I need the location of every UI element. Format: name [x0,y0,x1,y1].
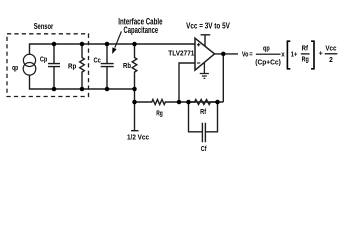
svg-text:x: x [281,50,284,59]
svg-text:=: = [249,49,252,58]
node dot Rb top [132,42,137,47]
capacitor Cc [101,44,114,89]
wire feedback vertical [222,54,224,102]
label arrow to Cc [115,31,122,47]
node dot Cf left [186,100,191,105]
bracket left [287,41,290,69]
op-amp U1 triangle [195,38,215,70]
wire feedback bottom [179,101,223,103]
node dot Cc top [105,42,110,47]
wire inverting input [179,63,195,102]
svg-text:1/2 Vcc: 1/2 Vcc [127,133,149,142]
wire output [215,53,239,55]
equation Vo output [242,41,337,69]
svg-text:Vcc: Vcc [325,43,336,52]
svg-text:Sensor: Sensor [34,21,54,31]
svg-text:qp: qp [263,43,270,52]
sensor dashed box [7,34,89,97]
svg-text:Cf: Cf [201,144,207,153]
wire top rail [30,44,196,55]
svg-text:(Cp+Cc): (Cp+Cc) [255,57,281,66]
wire bottom rail [30,75,135,89]
node dot Cp top [52,42,57,47]
resistor Rp [80,44,85,89]
node dot output [221,52,226,57]
ground [200,62,209,78]
node dot Cf right [215,100,220,105]
resistor Rb [132,44,137,89]
svg-text:Rf: Rf [302,44,309,53]
svg-text:Rg: Rg [302,55,309,64]
Vcc supply stub [201,35,211,47]
svg-text:Rb: Rb [123,61,131,70]
svg-text:Rp: Rp [68,61,77,70]
svg-text:Vo: Vo [242,49,249,58]
svg-text:Rg: Rg [156,108,163,117]
node dot Rb bottom [132,87,137,92]
node dot Rp top [80,42,85,47]
svg-text:Capacitance: Capacitance [124,25,159,35]
node dot Rg left [132,100,137,105]
svg-text:Cp: Cp [40,54,48,63]
node dot inverting node [177,100,182,105]
svg-text:TLV2771: TLV2771 [168,48,194,57]
svg-text:2: 2 [329,55,333,64]
svg-text:Vcc = 3V to 5V: Vcc = 3V to 5V [186,20,230,30]
op-amp plus sign [197,43,200,46]
resistor Rf [189,100,218,105]
svg-text:qp: qp [12,63,19,72]
node dot Cp bottom [52,87,57,92]
svg-text:+: + [319,48,323,57]
svg-text:Cc: Cc [94,56,101,65]
svg-text:1+: 1+ [291,50,298,59]
node dot Cc bottom [105,87,110,92]
label arrowhead [52,42,226,105]
capacitor Cp [48,44,60,89]
capacitor Cf [189,102,218,142]
svg-text:Rf: Rf [200,107,206,116]
bracket right [311,41,314,69]
op-amp minus sign [197,62,200,64]
current source qp [23,54,35,66]
wire 1/2 Vcc branch [131,89,139,131]
node dot Rp bottom [80,87,85,92]
resistor Rg [135,100,180,105]
